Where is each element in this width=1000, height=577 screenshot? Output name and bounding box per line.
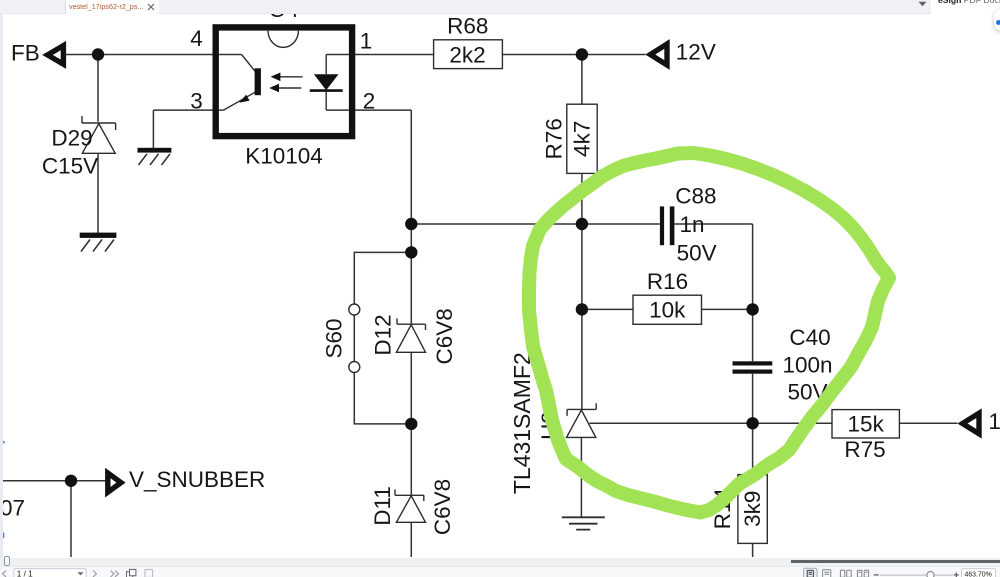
zener diode D11 xyxy=(395,490,426,523)
zener diode D29 xyxy=(82,116,116,153)
nav chevron left xyxy=(3,571,7,577)
ground under D29 xyxy=(80,233,117,252)
svg-text:D29: D29 xyxy=(51,126,92,151)
ground IEC under TL431 xyxy=(562,517,605,529)
junction at FB node xyxy=(92,48,104,60)
zoom slider track xyxy=(880,574,953,576)
svg-text:V_SNUBBER: V_SNUBBER xyxy=(129,467,265,492)
horizontal scrollbar thumb xyxy=(791,560,1000,563)
svg-text:R68: R68 xyxy=(447,13,488,38)
junction R16 left xyxy=(576,303,588,315)
svg-text:C6V8: C6V8 xyxy=(432,308,457,364)
svg-text:K10104: K10104 xyxy=(245,144,323,169)
svg-text:4: 4 xyxy=(190,26,203,51)
wire pin1 to R68 xyxy=(326,54,434,56)
blue fragment lower xyxy=(1,533,4,539)
junction pin2 column upper xyxy=(405,218,417,230)
wire TL431 ref to R75 to 12V xyxy=(590,422,958,424)
svg-text:D11: D11 xyxy=(370,486,395,526)
wire R16 row xyxy=(582,308,753,310)
eSign PDF Docs label xyxy=(938,0,1000,5)
svg-text:10k: 10k xyxy=(649,298,686,323)
optocoupler O4 box xyxy=(216,27,352,136)
svg-text:R16: R16 xyxy=(647,269,688,294)
pop-out icon xyxy=(127,569,136,577)
zoom minus xyxy=(874,574,879,576)
nav double chevron xyxy=(111,571,119,577)
svg-text:4k7: 4k7 xyxy=(570,121,595,157)
svg-text:3: 3 xyxy=(190,88,203,113)
svg-text:2k2: 2k2 xyxy=(449,42,485,67)
wire R68 to 12V xyxy=(503,54,646,56)
spark gap S60 xyxy=(349,304,360,373)
svg-text:C40: C40 xyxy=(789,325,830,350)
view icon single page xyxy=(823,570,831,577)
svg-text:100n: 100n xyxy=(782,352,832,377)
tab title xyxy=(69,2,143,12)
bottom toolbar xyxy=(0,566,1000,577)
light arrows xyxy=(269,73,302,93)
wire pin2 down through D12 D11 xyxy=(326,110,411,557)
svg-text:15k: 15k xyxy=(848,412,885,437)
svg-text:12V: 12V xyxy=(988,409,1000,434)
svg-text:D12: D12 xyxy=(371,314,396,355)
view icon selected xyxy=(804,568,818,577)
wire D29 branch xyxy=(97,55,99,233)
svg-text:C88: C88 xyxy=(675,184,716,209)
toolbar top border xyxy=(0,565,1000,567)
svg-text:R76: R76 xyxy=(542,118,567,159)
resistor R16 xyxy=(633,269,702,325)
zoom percent box xyxy=(962,569,996,577)
resistor R75 xyxy=(832,410,899,462)
junction V_SNUBBER xyxy=(65,475,77,487)
view icon two pages cover xyxy=(857,570,868,577)
svg-text:TL431SAMF2: TL431SAMF2 xyxy=(509,352,535,494)
svg-text:3k9: 3k9 xyxy=(740,491,765,527)
eSign white corner xyxy=(931,0,1000,14)
capacitor C40 xyxy=(733,361,773,373)
phototransistor inside optocoupler xyxy=(224,55,261,111)
zoom plus xyxy=(954,572,959,577)
wire junction down to R14 xyxy=(752,423,754,557)
svg-text:C6V8: C6V8 xyxy=(430,479,455,535)
svg-text:R75: R75 xyxy=(844,437,885,462)
tab close X xyxy=(146,2,156,12)
resistor R14 xyxy=(710,475,767,544)
wire 12V node down through R76 to TL431 xyxy=(581,55,583,410)
floating side card xyxy=(994,9,1000,31)
wire S60 branch xyxy=(354,252,411,424)
zoom slider knob xyxy=(927,572,934,577)
wire V_SNUBBER net xyxy=(0,481,106,557)
view icon two pages xyxy=(840,570,851,577)
svg-text:FB: FB xyxy=(11,41,40,66)
connector 12V right xyxy=(963,409,1000,434)
bottom scrollbar strip xyxy=(0,558,1000,566)
svg-text:S60: S60 xyxy=(322,318,347,358)
resistor R76 xyxy=(542,104,598,173)
wire TL431 anode to ground xyxy=(580,437,582,517)
svg-text:463.70%: 463.70% xyxy=(965,571,992,577)
nav chevron right xyxy=(93,571,97,577)
svg-text:2: 2 xyxy=(363,89,376,114)
connector FB xyxy=(11,41,63,66)
capacitor C88 xyxy=(660,206,674,245)
connector 12V top xyxy=(650,40,716,65)
wire node A horizontal to C88 xyxy=(411,224,752,309)
dropdown caret xyxy=(917,0,928,8)
top browser tab bar xyxy=(0,0,1000,14)
svg-text:1 / 1: 1 / 1 xyxy=(17,569,33,577)
shunt regulator TL431 xyxy=(567,403,597,437)
blue fragment upper xyxy=(0,442,5,445)
resistor R68 xyxy=(434,13,503,68)
left page gutter xyxy=(0,14,3,565)
scrollbar left piece xyxy=(4,556,11,567)
page number box xyxy=(14,569,86,577)
svg-text:07: 07 xyxy=(0,496,25,521)
svg-text:1n: 1n xyxy=(680,212,705,237)
junction S60 bottom xyxy=(405,418,417,430)
svg-text:50V: 50V xyxy=(677,241,717,266)
LED inside optocoupler xyxy=(310,55,343,111)
zener diode D12 xyxy=(396,318,425,352)
active tab xyxy=(65,0,159,14)
wire FB to optocoupler pin4 xyxy=(66,54,242,56)
blue dot on card xyxy=(996,20,1000,25)
svg-text:C15V: C15V xyxy=(42,154,98,179)
wire pin3 to ground xyxy=(153,110,223,148)
junction node A xyxy=(576,218,588,230)
junction ref node xyxy=(746,417,758,429)
junction at 12V node xyxy=(576,48,588,60)
svg-text:1: 1 xyxy=(360,29,373,54)
junction R16 right xyxy=(746,303,758,315)
green highlighter annotation loop xyxy=(529,153,889,513)
connector V_SNUBBER xyxy=(108,467,265,492)
wire C40 column xyxy=(752,309,754,423)
page icon light xyxy=(145,570,153,577)
svg-text:12V: 12V xyxy=(676,40,716,65)
ground under pin3 xyxy=(138,148,172,165)
junction S60 top xyxy=(405,246,417,258)
